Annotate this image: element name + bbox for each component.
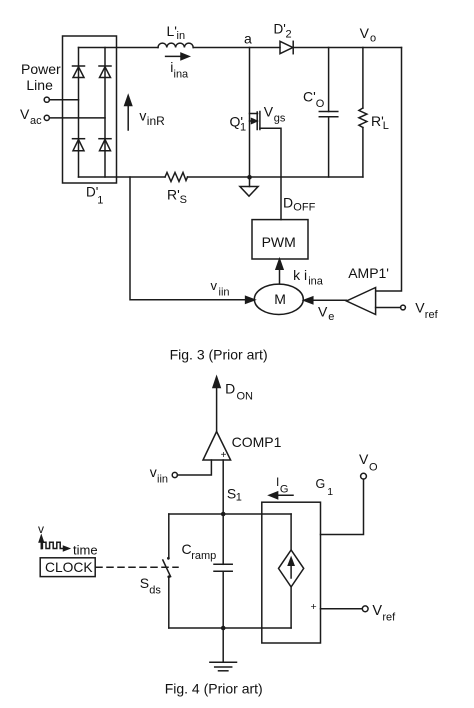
svg-text:ac: ac bbox=[30, 115, 42, 127]
svg-text:OFF: OFF bbox=[293, 201, 315, 213]
svg-text:D': D' bbox=[274, 21, 286, 36]
svg-text:CLOCK: CLOCK bbox=[45, 560, 93, 575]
svg-text:R': R' bbox=[167, 187, 180, 203]
svg-text:ina: ina bbox=[308, 276, 324, 288]
svg-text:V: V bbox=[372, 603, 382, 619]
svg-text:iin: iin bbox=[157, 473, 168, 485]
svg-text:S: S bbox=[140, 575, 149, 591]
svg-text:ina: ina bbox=[174, 69, 190, 81]
svg-text:ON: ON bbox=[237, 390, 254, 402]
svg-text:Fig. 4 (Prior art): Fig. 4 (Prior art) bbox=[165, 681, 263, 697]
svg-text:Line: Line bbox=[26, 77, 53, 93]
svg-text:D: D bbox=[225, 380, 235, 396]
svg-text:2: 2 bbox=[286, 28, 292, 40]
svg-text:V: V bbox=[415, 300, 425, 316]
svg-text:V: V bbox=[264, 104, 274, 120]
svg-text:D: D bbox=[283, 194, 293, 210]
svg-text:1: 1 bbox=[240, 122, 246, 134]
svg-text:1: 1 bbox=[97, 194, 103, 206]
svg-text:1: 1 bbox=[236, 492, 242, 504]
svg-text:S: S bbox=[180, 194, 187, 206]
svg-text:C': C' bbox=[303, 89, 316, 105]
svg-text:C: C bbox=[182, 541, 192, 557]
svg-text:v: v bbox=[139, 107, 146, 123]
svg-text:Fig. 3 (Prior art): Fig. 3 (Prior art) bbox=[170, 347, 268, 363]
svg-text:v: v bbox=[211, 278, 218, 293]
svg-text:e: e bbox=[328, 311, 334, 323]
svg-text:G: G bbox=[316, 477, 326, 491]
svg-text:v: v bbox=[38, 522, 44, 536]
svg-text:PWM: PWM bbox=[262, 234, 296, 250]
svg-text:o: o bbox=[370, 32, 376, 44]
svg-text:AMP1': AMP1' bbox=[348, 265, 389, 281]
svg-text:1: 1 bbox=[327, 486, 333, 498]
svg-text:L': L' bbox=[167, 23, 177, 39]
svg-text:COMP1: COMP1 bbox=[232, 434, 282, 450]
svg-text:a: a bbox=[244, 31, 252, 47]
svg-text:O: O bbox=[369, 462, 378, 474]
svg-text:ref: ref bbox=[382, 611, 396, 623]
svg-text:iin: iin bbox=[219, 287, 230, 299]
svg-text:gs: gs bbox=[274, 113, 286, 125]
svg-text:in: in bbox=[177, 30, 186, 42]
svg-text:ds: ds bbox=[149, 585, 161, 597]
svg-text:V: V bbox=[360, 25, 370, 41]
svg-text:k i: k i bbox=[293, 267, 307, 283]
svg-text:I: I bbox=[276, 475, 279, 489]
svg-text:V: V bbox=[359, 451, 369, 467]
svg-text:ramp: ramp bbox=[191, 550, 216, 562]
svg-text:time: time bbox=[73, 543, 98, 558]
svg-text:O: O bbox=[316, 98, 325, 110]
svg-text:inR: inR bbox=[147, 114, 165, 128]
svg-text:ref: ref bbox=[425, 309, 439, 321]
svg-text:+: + bbox=[311, 601, 317, 613]
svg-text:V: V bbox=[20, 106, 30, 122]
svg-text:M: M bbox=[274, 291, 286, 307]
svg-text:G: G bbox=[280, 484, 289, 496]
svg-text:v: v bbox=[150, 464, 157, 480]
svg-text:Power: Power bbox=[21, 61, 61, 77]
svg-text:L: L bbox=[383, 120, 389, 132]
svg-text:+: + bbox=[221, 450, 227, 461]
svg-text:V: V bbox=[318, 304, 328, 320]
